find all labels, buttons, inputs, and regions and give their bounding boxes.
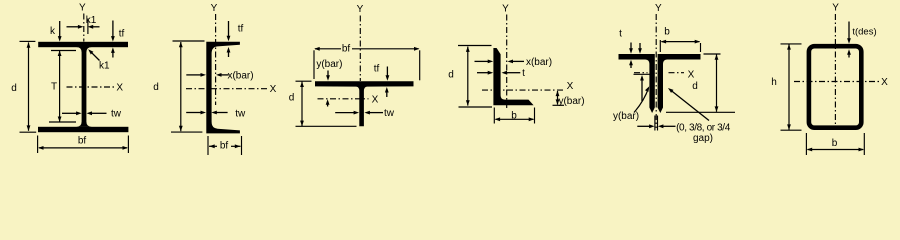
tf dimension arrows (T) <box>385 67 389 98</box>
gap label line 1 (2L) <box>676 123 731 134</box>
X centerline (HSS) <box>794 81 879 83</box>
Y centerline (2L) <box>655 14 657 128</box>
Y centerline (HSS) <box>834 14 836 125</box>
label x(bar) (L) <box>526 57 552 68</box>
svg-text:d: d <box>692 81 698 92</box>
svg-text:x(bar): x(bar) <box>526 57 552 68</box>
k1 dimension arrows (W) <box>67 19 100 35</box>
channel profile <box>206 42 240 134</box>
svg-text:X: X <box>116 83 123 94</box>
axis label X (L) <box>567 81 574 92</box>
label k (W) <box>50 26 56 37</box>
svg-text:X: X <box>270 84 277 95</box>
d dimension line (C) <box>171 41 205 132</box>
label tf (T) <box>374 64 380 75</box>
label k1 (W) <box>86 15 97 26</box>
label tw (C) <box>235 109 246 120</box>
label t(des) (HSS) <box>852 27 876 38</box>
label y(bar) (T) <box>316 59 342 70</box>
gap dimension arrows (2L) <box>637 116 675 131</box>
bf dimension (C) <box>208 136 242 155</box>
axis label X (2L) <box>688 70 695 81</box>
label bf (W) <box>78 136 87 147</box>
svg-text:d: d <box>11 83 17 94</box>
y-bar dimension (L) <box>553 91 565 106</box>
y-bar dimension (2L) <box>634 43 651 113</box>
svg-text:(0, 3/8, or 3/4: (0, 3/8, or 3/4 <box>676 123 731 134</box>
label b (HSS) <box>832 138 838 149</box>
svg-text:y(bar): y(bar) <box>316 59 342 70</box>
X centerline (2L) <box>634 72 684 74</box>
d dimension line (2L) <box>666 54 735 112</box>
svg-text:gap): gap) <box>693 133 713 144</box>
X centerline (C) <box>186 88 268 90</box>
svg-text:b: b <box>511 111 517 122</box>
W-shape I-beam top flange <box>38 42 128 47</box>
T dimension line with arrows (W) <box>58 51 62 123</box>
svg-text:bf: bf <box>342 44 351 55</box>
y-bar dimension arrows (T) <box>326 71 330 107</box>
tf dimension arrows (C) <box>227 21 231 57</box>
svg-text:Y: Y <box>832 3 839 14</box>
d dimension line (L) <box>458 46 492 108</box>
Y centerline (L) <box>506 15 508 109</box>
b dimension (L) <box>494 108 534 124</box>
k reference line top (W) <box>51 50 76 52</box>
k1 fillet leader arrow (W) <box>88 49 99 60</box>
W-shape I-beam bottom flange <box>38 127 128 132</box>
svg-text:Y: Y <box>211 3 218 14</box>
X centerline (W) <box>67 86 116 88</box>
label y(bar) (2L) <box>613 111 639 122</box>
svg-text:d: d <box>289 93 295 104</box>
svg-text:X: X <box>567 81 574 92</box>
axis label Y (2L) <box>655 3 662 14</box>
svg-text:b: b <box>664 27 670 38</box>
svg-text:tw: tw <box>384 108 395 119</box>
axis label X (W) <box>116 83 123 94</box>
k dimension arrow (W) <box>58 21 62 42</box>
svg-text:tw: tw <box>235 109 246 120</box>
tw dimension arrows (T) <box>335 111 383 115</box>
h dimension line (HSS) <box>781 44 802 130</box>
axis label Y (T) <box>357 4 364 15</box>
t dimension arrows (2L) <box>629 43 633 69</box>
b dimension (HSS) <box>806 133 864 155</box>
b dimension (2L) <box>660 40 700 52</box>
svg-text:h: h <box>771 77 777 88</box>
svg-text:T: T <box>51 82 57 93</box>
label d (T) <box>289 93 295 104</box>
label tf (C) <box>238 24 244 35</box>
W-shape I-beam web with fillets <box>76 47 92 127</box>
svg-text:tf: tf <box>374 64 380 75</box>
svg-text:k1: k1 <box>99 61 110 72</box>
HSS tube profile <box>809 46 861 128</box>
label d (C) <box>153 82 159 93</box>
svg-text:t: t <box>522 68 525 79</box>
label b (L) <box>511 111 517 122</box>
label h (HSS) <box>771 77 777 88</box>
svg-text:t(des): t(des) <box>852 27 876 38</box>
svg-text:bf: bf <box>78 136 87 147</box>
label tw (T) <box>384 108 395 119</box>
tf dimension arrows (W) <box>111 21 115 58</box>
Y centerline (C) <box>215 14 217 105</box>
angle profile <box>493 48 533 105</box>
svg-text:t: t <box>619 29 622 40</box>
svg-text:b: b <box>832 138 838 149</box>
svg-text:d: d <box>448 70 454 81</box>
svg-text:tw: tw <box>111 109 122 120</box>
svg-text:X: X <box>881 77 888 88</box>
svg-text:d: d <box>153 82 159 93</box>
label d (L) <box>448 70 454 81</box>
label d (W) <box>11 83 17 94</box>
axis label Y (W) <box>79 3 86 14</box>
t dimension arrows (L) <box>477 71 520 75</box>
x-bar dimension arrows (C) <box>186 73 228 77</box>
label bf (C) <box>220 141 229 152</box>
gap leader arrow (2L) <box>668 88 709 121</box>
axis label X (C) <box>270 84 277 95</box>
tw dimension arrows (C) <box>186 111 227 115</box>
label k1 at fillet (W) <box>99 61 110 72</box>
svg-text:x(bar): x(bar) <box>227 70 253 81</box>
Y centerline (W) <box>83 14 85 42</box>
svg-text:Y: Y <box>655 3 662 14</box>
k reference line bottom (W) <box>49 121 76 123</box>
label b (2L) <box>664 27 670 38</box>
label bf (T) <box>342 44 351 55</box>
svg-text:X: X <box>688 70 695 81</box>
double angle left angle <box>619 54 655 113</box>
svg-text:bf: bf <box>220 141 229 152</box>
gap label line 2 (2L) <box>693 133 713 144</box>
svg-text:Y: Y <box>357 4 364 15</box>
X centerline (T) <box>318 98 369 100</box>
axis label X (T) <box>372 94 379 105</box>
x-bar dimension arrows (L) <box>475 60 525 64</box>
label tw (W) <box>111 109 122 120</box>
label T (W) <box>51 82 57 93</box>
t dimension arrows (HSS) <box>847 22 851 58</box>
label y(bar) (L) <box>558 96 584 107</box>
d dimension line (T) <box>296 81 357 126</box>
X centerline (L) <box>482 89 564 91</box>
svg-text:X: X <box>372 94 379 105</box>
svg-text:Y: Y <box>79 3 86 14</box>
Y centerline (T) <box>359 16 361 82</box>
axis label Y (C) <box>211 3 218 14</box>
bf dimension (W) <box>38 136 129 154</box>
axis label Y (HSS) <box>832 3 839 14</box>
axis label Y (L) <box>502 4 509 15</box>
label tf (W) <box>119 29 125 40</box>
tee profile <box>315 81 414 126</box>
double angle right angle <box>658 54 701 113</box>
label x(bar) (C) <box>227 70 253 81</box>
label t (2L) <box>619 29 622 40</box>
tw dimension arrows (W) <box>62 111 107 115</box>
label d (2L) <box>692 81 698 92</box>
label t (L) <box>522 68 525 79</box>
svg-text:tf: tf <box>238 24 244 35</box>
bf dimension (T) <box>314 47 420 80</box>
svg-text:Y: Y <box>502 4 509 15</box>
d dimension line (W) <box>20 41 37 132</box>
svg-text:tf: tf <box>119 29 125 40</box>
svg-text:y(bar): y(bar) <box>613 111 639 122</box>
axis label X (HSS) <box>881 77 888 88</box>
